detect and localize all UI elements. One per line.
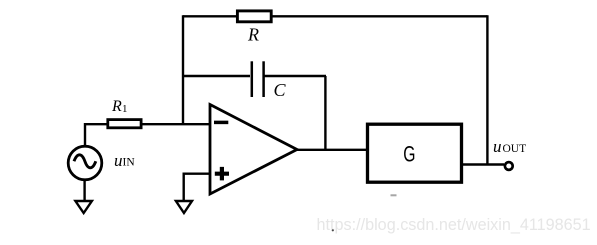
wire left vertical feedback (182, 15, 184, 124)
resistor R1 (108, 98, 141, 128)
svg-text:IN: IN (123, 157, 136, 169)
voltage source uIN (68, 146, 135, 180)
ground under source (75, 201, 92, 213)
svg-text:G: G (403, 142, 415, 167)
wire top feedback (R loop) (183, 15, 487, 17)
resistor R (237, 11, 271, 45)
wire G output to terminal (462, 163, 505, 165)
amplifier block G (368, 124, 462, 182)
wire right vertical (C loop) to op-amp output (324, 76, 326, 150)
svg-text:R: R (247, 25, 259, 45)
wire right vertical feedback (R loop) (486, 15, 488, 164)
wire op-amp output to G (296, 149, 367, 151)
wire noninverting input to ground (184, 173, 210, 202)
capacitor C (252, 61, 287, 100)
wire capacitor feedback right segment (264, 75, 326, 77)
svg-text:https://blog.csdn.net/weixin_4: https://blog.csdn.net/weixin_41198651 (317, 216, 591, 234)
svg-text:C: C (274, 80, 287, 100)
svg-text:1: 1 (122, 103, 128, 115)
op-amp U1 (210, 105, 297, 195)
svg-text:R: R (111, 98, 122, 115)
wire capacitor feedback left segment (183, 75, 250, 77)
wire source lower stem (83, 179, 85, 201)
ground under noninverting input (176, 201, 192, 213)
wire source to inverting input (84, 124, 210, 147)
svg-text:OUT: OUT (503, 143, 527, 155)
terminal uOUT (493, 137, 526, 170)
svg-text:u: u (114, 151, 123, 170)
svg-text:u: u (493, 137, 502, 156)
